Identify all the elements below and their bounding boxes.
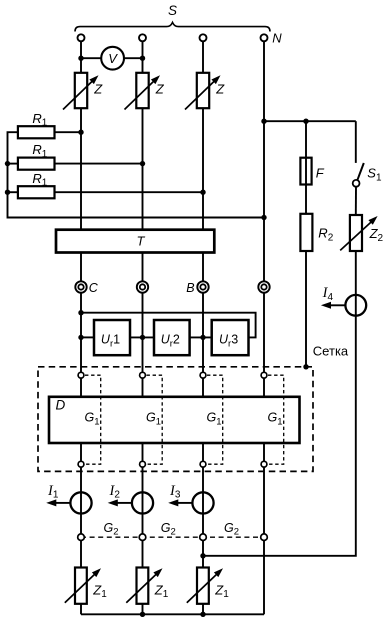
- resistor R1 #1: [18, 126, 55, 138]
- wire Ur1 to Ur2: [130, 336, 154, 338]
- svg-text:D: D: [56, 398, 66, 413]
- terminal ring node col3: [197, 281, 208, 292]
- junction col1/Ur1: [78, 335, 83, 340]
- junction bottom bus col2: [140, 612, 145, 617]
- node bottom circle col1: [78, 461, 84, 467]
- wire col1 out of G box: [80, 443, 82, 461]
- wire col1 T to terminal: [80, 253, 82, 282]
- svg-text:F: F: [316, 165, 325, 180]
- junction left bus to N column: [261, 215, 266, 220]
- svg-text:S: S: [168, 3, 177, 18]
- wire N to right branch: [264, 120, 356, 122]
- wire col3 to Z1: [202, 540, 204, 567]
- current source I1: [70, 492, 91, 513]
- wire R1#3 to col3: [55, 191, 204, 193]
- regulator U_r3: [212, 320, 249, 355]
- svg-text:Сетка: Сетка: [313, 344, 349, 359]
- node top circle col4: [261, 372, 267, 378]
- svg-text:Z: Z: [215, 82, 225, 97]
- svg-text:Z: Z: [155, 82, 165, 97]
- wire voltmeter to col2: [124, 57, 143, 59]
- fuse F: [300, 158, 311, 185]
- wire to switch S1: [355, 121, 357, 163]
- impedance Z1 #2: [137, 568, 149, 604]
- generator row box: [49, 397, 300, 443]
- variability arrow Z1 #2: [126, 573, 157, 602]
- wire col3 Z to T: [202, 108, 204, 230]
- junction feedback/col1: [78, 310, 83, 315]
- switch S1 contact: [353, 180, 360, 187]
- wire col2 into G box: [142, 378, 144, 397]
- node bottom circle col3: [200, 461, 206, 467]
- svg-text:T: T: [137, 234, 146, 249]
- wire col2 T to terminal: [142, 253, 144, 282]
- junction col1/voltmeter: [78, 56, 83, 61]
- junction fuse branch: [303, 119, 308, 124]
- resistor R2: [300, 214, 312, 251]
- dashed enclosure (grid network): [38, 367, 313, 472]
- terminal ring node col4: [258, 281, 269, 292]
- wire col4 into G box: [263, 378, 265, 397]
- terminal ring node col1: [75, 281, 86, 292]
- junction left bus R1#3: [5, 190, 10, 195]
- wire Z1 #1 to bottom bus: [80, 604, 82, 615]
- node top circle col2: [140, 372, 146, 378]
- node G2 circle col2: [139, 534, 146, 541]
- node G2 circle col1: [78, 534, 85, 541]
- wire S1 to Z2: [355, 187, 357, 215]
- wire col2 to Z1: [142, 540, 144, 567]
- impedance Z2: [350, 215, 362, 251]
- variability arrow Z1: [63, 80, 93, 109]
- variability arrow Z1 #1: [65, 573, 96, 602]
- impedance Z (phase 2): [136, 73, 148, 108]
- switch S1 blade: [357, 163, 364, 180]
- svg-text:B: B: [186, 281, 194, 295]
- impedance Z1 #1: [75, 568, 87, 604]
- regulator U_r1: [94, 320, 130, 355]
- wire col4 to bottom bus: [263, 540, 265, 614]
- junction R1#3/col3: [200, 190, 205, 195]
- wire col3 to G2 node: [202, 467, 204, 534]
- wire R1#2 to left bus: [8, 163, 18, 165]
- wire R1#3 to left bus: [8, 191, 18, 193]
- dashed sub-box col3: [207, 375, 223, 464]
- wire col2 to G2 node: [142, 467, 144, 534]
- terminal 2 (phase input): [139, 34, 146, 41]
- node top circle col1: [78, 372, 84, 378]
- wire col3 terminal to Z: [202, 41, 204, 73]
- wire Z1 #3 to bottom bus: [202, 604, 204, 615]
- impedance Z (phase 1): [75, 73, 87, 108]
- wire col1 terminal to Z: [80, 41, 82, 73]
- wire R1#1 to col1: [55, 131, 82, 133]
- wire col2 out of G box: [142, 443, 144, 461]
- wire col4 to G2 node: [263, 467, 265, 534]
- wire col1 Z to T: [80, 108, 82, 230]
- wire Ur2 to Ur3: [190, 336, 212, 338]
- svg-text:V: V: [108, 51, 118, 66]
- junction col2/voltmeter: [140, 56, 145, 61]
- fuse F element line: [305, 158, 307, 185]
- variability arrow Z3: [185, 80, 215, 109]
- node G2 circle col3: [200, 534, 207, 541]
- wire to fuse F: [305, 121, 307, 158]
- impedance Z (phase 3): [197, 73, 209, 108]
- wire Z1 #2 to bottom bus: [142, 604, 144, 615]
- junction left bus R1#2: [5, 161, 10, 166]
- wire col1 to Z1: [80, 540, 82, 567]
- variability arrow Z2: [340, 221, 372, 250]
- resistor R1 #3: [18, 186, 55, 198]
- junction col3 to right branch: [200, 553, 205, 558]
- wire col3 into G box: [202, 378, 204, 397]
- current source I4: [345, 295, 366, 316]
- terminal 3 (phase input): [200, 34, 207, 41]
- junction R2/dashed grid box: [303, 364, 308, 369]
- current source I3: [192, 492, 213, 513]
- current source I2: [132, 492, 153, 513]
- junction col2/Ur link: [140, 335, 145, 340]
- node bottom circle col2: [140, 461, 146, 467]
- node G2 circle col4: [261, 534, 268, 541]
- voltmeter V: [101, 47, 124, 70]
- transformer T: [56, 230, 214, 253]
- wire col2 to D box: [142, 293, 144, 373]
- regulator U_r2: [154, 320, 190, 355]
- wire col1 into G box: [80, 378, 82, 397]
- junction N column/right branch: [261, 119, 266, 124]
- wire R2 to grid box: [305, 251, 307, 367]
- dashed sub-box col2: [147, 375, 163, 464]
- wire col4 to D box: [263, 293, 265, 373]
- feedback wire Ur3 to col1: [81, 313, 256, 338]
- wire col4 out of G box: [263, 443, 265, 461]
- wire col3 out of G box: [202, 443, 204, 461]
- bottom bus wire: [81, 613, 264, 615]
- wire fuse to R2: [305, 185, 307, 214]
- brace S supply group: [75, 22, 270, 31]
- wire col1 to D box: [80, 293, 82, 373]
- wire col2 Z to T: [142, 108, 144, 230]
- dashed sub-box col1: [85, 375, 101, 464]
- wire N column down to C/B terminal row: [263, 41, 265, 281]
- dashed sub-box col4: [268, 375, 284, 464]
- wire col3 T to terminal: [202, 253, 204, 282]
- junction R1#2/col2: [140, 161, 145, 166]
- terminal ring node col2: [137, 281, 148, 292]
- junction col3/Ur link: [200, 335, 205, 340]
- wire col3 to D box: [202, 293, 204, 373]
- left bus wire: [8, 132, 265, 217]
- wire R1#2 to col2: [55, 163, 143, 165]
- variability arrow Z1 #3: [187, 573, 218, 602]
- junction R1#1/col1: [78, 130, 83, 135]
- svg-text:C: C: [89, 281, 99, 295]
- terminal 4 (phase input): [261, 34, 268, 41]
- node top circle col3: [200, 372, 206, 378]
- dashed link G2 line: [81, 536, 264, 538]
- node bottom circle col4: [261, 461, 267, 467]
- wire Z2 down right side to col3: [203, 251, 356, 556]
- junction bottom bus col3: [200, 612, 205, 617]
- svg-text:Z: Z: [93, 82, 103, 97]
- wire col1 to Ur1: [81, 336, 94, 338]
- impedance Z1 #3: [197, 568, 209, 604]
- terminal 1 (phase input): [78, 34, 85, 41]
- wire col1 to G2 node: [80, 467, 82, 534]
- svg-text:N: N: [272, 31, 282, 46]
- resistor R1 #2: [18, 158, 55, 170]
- wire col1 to voltmeter: [81, 57, 101, 59]
- variability arrow Z2: [125, 80, 155, 109]
- wire col2 terminal to Z: [142, 41, 144, 73]
